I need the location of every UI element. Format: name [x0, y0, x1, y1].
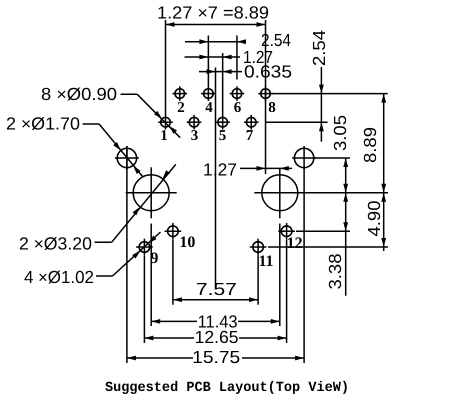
dimension 1.27 mid: dim line and outside arrows — [240, 167, 292, 169]
pad 9 (hole 1.02) — [139, 242, 150, 253]
svg-text:2 ×Ø3.20: 2 ×Ø3.20 — [19, 234, 92, 254]
wire: pad6 extension line — [236, 36, 238, 80]
svg-text:2: 2 — [177, 100, 185, 116]
pad 2 (hole 0.90) — [175, 89, 185, 99]
shield hole right (1.70) — [294, 148, 313, 167]
svg-text:11: 11 — [258, 253, 273, 270]
shield hole left (1.70) — [117, 148, 136, 167]
dimension 15.75: dim line with inline text — [127, 357, 193, 359]
dimension 2.54 (pads 4-6): dim line, outside arrows, text — [185, 41, 246, 43]
wire: vertical center line — [215, 68, 217, 289]
svg-text:2 ×Ø1.70: 2 ×Ø1.70 — [6, 114, 80, 134]
pad 10 (hole 1.02) — [168, 226, 179, 237]
dimension 12.65: dim line with inline text — [144, 337, 194, 339]
dimension 8.89 right: dim line with arrows — [383, 94, 385, 251]
svg-text:15.75: 15.75 — [192, 347, 240, 367]
wire: even pad row extension line right — [272, 93, 388, 95]
svg-text:1: 1 — [160, 128, 168, 144]
svg-text:10: 10 — [179, 234, 195, 251]
svg-text:7: 7 — [246, 128, 254, 144]
pad 3 (hole 0.90) — [189, 117, 199, 127]
svg-text:3.38: 3.38 — [325, 254, 345, 290]
mounting hole right (3.20) — [262, 175, 298, 211]
wire: pad5 extension line — [222, 53, 224, 115]
svg-text:Suggested PCB Layout(Top VieW): Suggested PCB Layout(Top VieW) — [105, 380, 349, 396]
pad 7 (hole 0.90) — [246, 117, 256, 127]
wire: right shield hole extension down — [303, 170, 305, 364]
svg-text:2.54: 2.54 — [309, 30, 329, 66]
wire: shield hole row extension line right — [314, 157, 350, 159]
pad 8 (hole 0.90) — [261, 89, 271, 99]
mounting hole left (3.20) — [133, 175, 169, 211]
svg-text:4: 4 — [205, 100, 213, 116]
svg-text:1.27: 1.27 — [203, 160, 237, 180]
pad 11 (hole 1.02) — [253, 242, 264, 253]
wire: pad11 extension down — [257, 256, 259, 305]
svg-text:8.89: 8.89 — [360, 127, 380, 163]
svg-text:1.27 ×7 =8.89: 1.27 ×7 =8.89 — [157, 3, 269, 23]
wire: pad4 extension line — [207, 36, 209, 87]
dimension 1.27 (pads 4-5): dim line, outside arrows, text — [185, 56, 241, 58]
leader for 2x1.70 to left shield hole — [83, 123, 100, 125]
leader for 4x1.02 to pad 9 — [96, 275, 113, 277]
svg-text:3: 3 — [191, 128, 199, 144]
svg-text:12.65: 12.65 — [195, 327, 239, 347]
wire: pad9 extension down — [143, 256, 145, 344]
wire: odd pad row extension line right — [265, 121, 328, 123]
dimension 3.38: arrows on same line below — [343, 193, 348, 202]
dimension 4.90: arrows — [381, 193, 386, 202]
wire: pad11 row extension line right — [268, 246, 388, 248]
leader for 2x3.20 to left mounting hole — [95, 241, 112, 243]
dimension 0.635 (center to pad5): dim line, outside arrows, text — [199, 71, 242, 73]
wire: pad12 row extension line right — [296, 230, 350, 232]
wire: left mounting hole extension down — [150, 224, 152, 327]
svg-text:4.90: 4.90 — [364, 200, 384, 236]
svg-text:12: 12 — [287, 235, 303, 252]
pad 1 (hole 0.90) — [161, 117, 171, 127]
leader for 8x0.90 to pad 1 — [121, 93, 138, 95]
pad 4 (hole 0.90) — [204, 89, 214, 99]
dimension 1.27x7=8.89 top: dim line with arrows — [166, 24, 266, 26]
svg-text:7.57: 7.57 — [196, 279, 237, 299]
wire: pad10 extension down — [172, 240, 174, 305]
pad 12 (hole 1.02) — [281, 226, 292, 237]
svg-text:8 ×Ø0.90: 8 ×Ø0.90 — [41, 84, 117, 104]
svg-text:0.635: 0.635 — [244, 62, 292, 82]
wire: left shield hole extension down — [126, 146, 128, 363]
svg-text:6: 6 — [234, 100, 242, 116]
svg-text:4 ×Ø1.02: 4 ×Ø1.02 — [24, 267, 94, 287]
wire: pad8 extension line (top dim down through 1.27 dim) — [265, 20, 267, 174]
pad 5 (hole 0.90) — [218, 117, 228, 127]
wire: mounting hole row extension line right — [305, 192, 388, 194]
wire: pad12 extension down — [286, 240, 288, 343]
dimension 2.54 vertical right: dim line, outside arrows, rotated text — [320, 67, 322, 142]
svg-text:3.05: 3.05 — [330, 115, 350, 151]
dimension 11.43: dim line with inline text — [151, 320, 197, 322]
svg-text:8: 8 — [268, 100, 276, 116]
wire: pad1 extension line up to 8.89 dim — [165, 20, 167, 115]
dimension 3.05: dim line with arrows — [345, 158, 347, 296]
pad 6 (hole 0.90) — [232, 89, 242, 99]
wire: right mounting hole extension down — [279, 224, 281, 327]
svg-text:5: 5 — [219, 128, 227, 144]
